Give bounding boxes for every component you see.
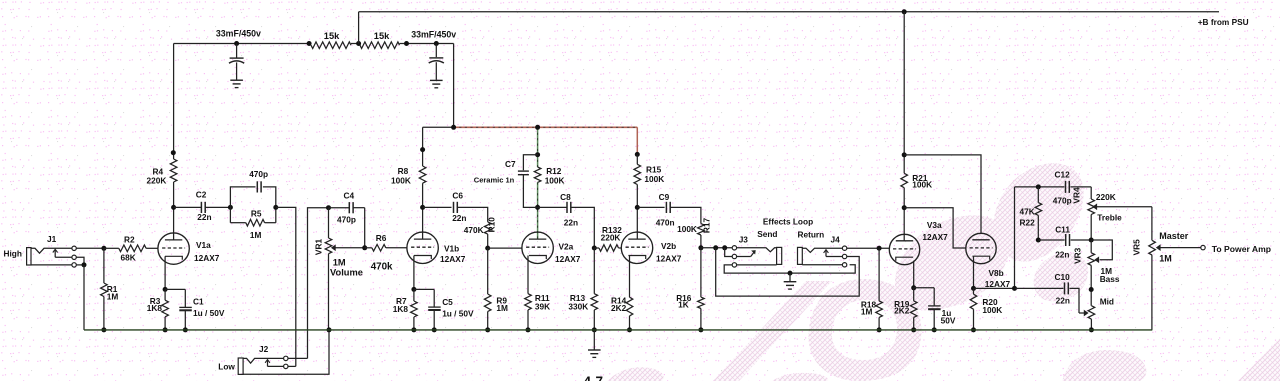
svg-text:V2a: V2a (559, 242, 574, 252)
svg-text:12AX7: 12AX7 (656, 254, 682, 264)
svg-text:Return: Return (798, 230, 825, 240)
svg-text:1M: 1M (250, 230, 262, 240)
svg-text:22n: 22n (197, 212, 211, 222)
svg-text:15k: 15k (324, 31, 340, 41)
svg-text:100K: 100K (644, 174, 664, 184)
svg-text:2K2: 2K2 (611, 303, 627, 313)
svg-text:C10: C10 (1055, 272, 1071, 282)
svg-text:1M: 1M (496, 303, 508, 313)
svg-text:C6: C6 (452, 191, 463, 201)
svg-text:470k: 470k (371, 261, 393, 272)
svg-text:Master: Master (1159, 231, 1189, 241)
svg-text:Low: Low (218, 361, 235, 371)
svg-text:470p: 470p (249, 169, 268, 179)
svg-text:4-7: 4-7 (584, 374, 604, 381)
svg-text:1u / 50V: 1u / 50V (193, 308, 225, 318)
svg-text:1u / 50V: 1u / 50V (442, 309, 474, 319)
svg-text:To Power Amp: To Power Amp (1212, 244, 1271, 254)
svg-text:VR4: VR4 (1072, 187, 1082, 204)
svg-text:R22: R22 (1020, 218, 1036, 228)
svg-text:C1: C1 (193, 296, 204, 306)
svg-text:R5: R5 (251, 208, 262, 218)
svg-text:J4: J4 (831, 234, 841, 244)
svg-text:+B from PSU: +B from PSU (1198, 17, 1249, 27)
svg-text:V1a: V1a (196, 240, 211, 250)
svg-text:R10: R10 (487, 217, 497, 233)
svg-text:22n: 22n (1055, 249, 1069, 259)
svg-text:Effects Loop: Effects Loop (763, 216, 813, 226)
svg-text:39K: 39K (535, 301, 550, 311)
svg-text:1K8: 1K8 (147, 303, 163, 313)
svg-text:Bass: Bass (1100, 274, 1120, 284)
svg-text:22n: 22n (452, 213, 466, 223)
svg-text:1M: 1M (107, 291, 119, 301)
svg-text:V1b: V1b (444, 243, 459, 253)
svg-text:V3a: V3a (927, 220, 942, 230)
svg-text:12AX7: 12AX7 (194, 253, 220, 263)
svg-text:2K2: 2K2 (894, 306, 910, 316)
svg-text:220K: 220K (1096, 192, 1116, 202)
svg-text:50V: 50V (941, 316, 956, 326)
svg-text:C11: C11 (1055, 225, 1070, 235)
svg-text:12AX7: 12AX7 (440, 254, 466, 264)
svg-text:220K: 220K (601, 233, 621, 243)
svg-text:33mF/450v: 33mF/450v (411, 29, 456, 39)
svg-text:C8: C8 (560, 192, 571, 202)
svg-text:J2: J2 (259, 344, 269, 354)
svg-text:Ceramic 1n: Ceramic 1n (474, 176, 515, 185)
svg-text:12AX7: 12AX7 (555, 254, 581, 264)
svg-text:330K: 330K (568, 301, 588, 311)
svg-text:C2: C2 (196, 190, 207, 200)
svg-text:100K: 100K (545, 175, 565, 185)
svg-text:VR5: VR5 (1131, 239, 1141, 256)
svg-text:47K: 47K (1020, 206, 1035, 216)
svg-text:100K: 100K (982, 305, 1002, 315)
svg-text:470p: 470p (1053, 195, 1072, 205)
svg-text:220K: 220K (147, 175, 167, 185)
svg-text:12AX7: 12AX7 (985, 279, 1011, 289)
svg-text:1M: 1M (861, 306, 873, 316)
svg-text:470p: 470p (337, 215, 356, 225)
svg-text:Volume: Volume (330, 268, 363, 278)
svg-text:R17: R17 (702, 218, 712, 234)
svg-text:100K: 100K (391, 175, 411, 185)
svg-text:C7: C7 (505, 159, 516, 169)
svg-text:470n: 470n (656, 218, 675, 228)
svg-text:V2b: V2b (661, 241, 676, 251)
svg-text:R2: R2 (124, 234, 135, 244)
svg-text:C4: C4 (344, 191, 355, 201)
svg-text:1K: 1K (678, 300, 689, 310)
svg-text:1M: 1M (1159, 253, 1172, 263)
svg-text:22n: 22n (564, 218, 578, 228)
svg-text:15k: 15k (374, 31, 390, 41)
svg-text:12AX7: 12AX7 (922, 232, 948, 242)
svg-text:J3: J3 (739, 234, 749, 244)
svg-text:Mid: Mid (1100, 297, 1114, 307)
svg-text:C5: C5 (442, 297, 453, 307)
svg-text:1K8: 1K8 (393, 304, 409, 314)
svg-text:V8b: V8b (989, 268, 1004, 278)
svg-text:Treble: Treble (1097, 212, 1122, 222)
svg-text:Send: Send (757, 229, 777, 239)
svg-text:C9: C9 (659, 192, 670, 202)
svg-text:J1: J1 (47, 234, 57, 244)
svg-text:22n: 22n (1056, 295, 1070, 305)
svg-text:68K: 68K (121, 252, 136, 262)
svg-text:R6: R6 (376, 233, 387, 243)
svg-text:1M: 1M (333, 258, 346, 268)
svg-text:100K: 100K (677, 224, 697, 234)
svg-text:C12: C12 (1055, 170, 1071, 180)
svg-text:100K: 100K (912, 180, 932, 190)
svg-text:High: High (4, 248, 22, 258)
svg-text:33mF/450v: 33mF/450v (216, 29, 261, 39)
svg-text:VR1: VR1 (313, 239, 323, 256)
svg-text:VR3: VR3 (1073, 247, 1083, 264)
svg-text:470K: 470K (464, 225, 484, 235)
